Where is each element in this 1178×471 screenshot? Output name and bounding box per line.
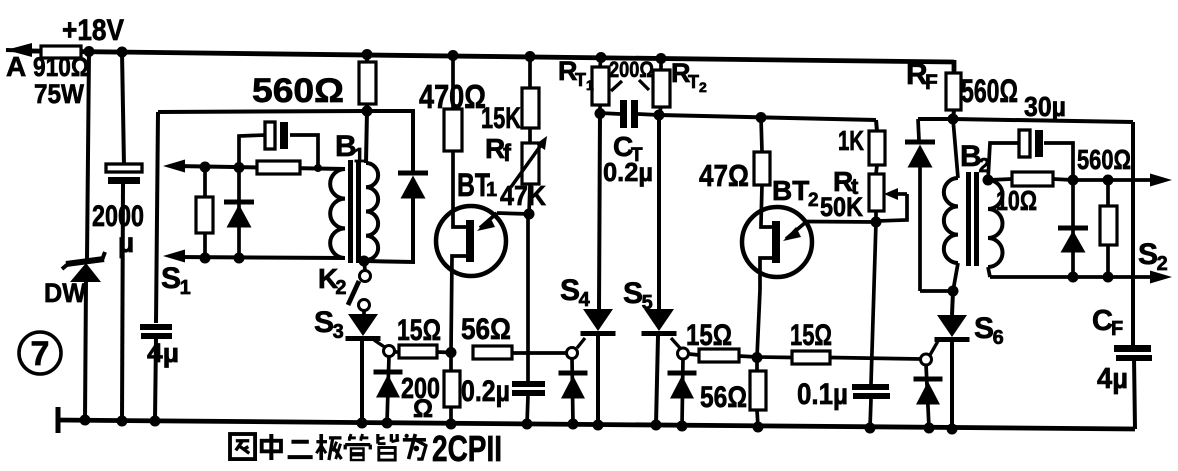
svg-text:6: 6	[993, 327, 1004, 349]
junction S2 bottom diode	[1068, 272, 1079, 283]
svg-text:4µ: 4µ	[1097, 363, 1128, 395]
junction bottom rail at 200Ω	[446, 419, 457, 430]
terminal circle S6 gate	[921, 354, 932, 365]
svg-text:1: 1	[486, 179, 497, 201]
resistor 10Ω body	[988, 172, 1073, 186]
label Rf	[485, 133, 512, 167]
junction B2 loop mid	[1068, 175, 1079, 186]
capacitor CF plates	[1114, 345, 1152, 361]
svg-text:2: 2	[1157, 253, 1168, 275]
wire RT1 to S4	[599, 113, 600, 309]
label S4	[560, 274, 591, 311]
svg-text:10Ω: 10Ω	[996, 185, 1037, 216]
resistor RF body	[946, 62, 961, 119]
wiper arrow Rt	[876, 188, 907, 221]
arrowhead terminal A (left)	[6, 43, 42, 57]
terminal bar bottom-left	[56, 407, 61, 433]
transformer B1 secondary winding	[330, 169, 345, 258]
label K2	[318, 263, 346, 299]
junction 47Ω branch	[756, 112, 767, 123]
thyristor S5	[642, 309, 677, 425]
wire 560Ω to rail	[365, 54, 369, 62]
svg-text:200Ω: 200Ω	[609, 57, 654, 82]
svg-text:T: T	[575, 70, 586, 90]
junction S2 bottom res	[1103, 272, 1114, 283]
wire B2 loop cap branch	[988, 143, 1073, 180]
resistor 15Ω (BT2-S6) body	[757, 351, 921, 364]
resistor 200Ω body	[444, 352, 460, 424]
thyristor S4	[581, 309, 616, 425]
wire top B2 row	[918, 119, 1133, 122]
svg-text:0.2µ: 0.2µ	[603, 157, 653, 187]
svg-text:470Ω: 470Ω	[419, 78, 486, 115]
svg-text:1: 1	[586, 77, 594, 93]
svg-text:f: f	[503, 140, 512, 167]
svg-text:3: 3	[333, 321, 344, 343]
diode B1 flyback	[398, 173, 428, 199]
label 1K	[838, 125, 864, 156]
label 15Ω (S6)	[790, 319, 832, 352]
junction 560Ω / box	[362, 106, 373, 117]
arrowhead S1 top	[163, 160, 185, 173]
label 560Ω (B2)	[1077, 144, 1131, 175]
svg-text:560Ω: 560Ω	[1077, 144, 1131, 175]
capacitor 0.1u plates	[852, 222, 890, 428]
label 0.1u	[797, 378, 848, 411]
wire S3 gate	[374, 340, 386, 348]
label 50K	[820, 192, 863, 222]
label B2	[960, 140, 990, 177]
arrowhead S1 bottom	[163, 250, 185, 263]
wire B1 box left vertical	[155, 112, 158, 420]
junction top rail at 470Ω branch	[448, 50, 459, 61]
svg-text:+18V: +18V	[62, 14, 124, 47]
junction bottom rail at 56Ω	[753, 422, 764, 433]
junction bottom rail at S5	[651, 420, 662, 431]
svg-text:1K: 1K	[838, 125, 864, 156]
circled 7 figure number	[19, 332, 61, 374]
svg-text:Ω: Ω	[413, 395, 433, 423]
label S6	[974, 312, 1004, 349]
label RF	[906, 58, 938, 94]
svg-text:910Ω: 910Ω	[33, 52, 89, 82]
resistor 910Ω 75W body	[41, 46, 81, 58]
pointer dash RT2	[639, 80, 649, 90]
label A	[6, 51, 26, 82]
transistor BT2 (UJT)	[742, 207, 876, 290]
svg-text:7: 7	[31, 335, 50, 373]
junction top rail at 2000u branch	[117, 47, 128, 58]
junction below RF	[948, 114, 959, 125]
thyristor S6	[935, 291, 970, 429]
svg-text:1: 1	[180, 277, 191, 299]
resistor 560Ω (B2) body	[1100, 180, 1117, 277]
junction bottom rail at 0.1u	[865, 423, 876, 434]
wire S5 gate	[671, 338, 680, 348]
resistor 47Ω (BT2) body	[754, 117, 770, 224]
arrowhead S2 top	[1150, 174, 1172, 187]
label Rt	[833, 166, 859, 199]
junction CT right	[654, 110, 665, 121]
svg-text:0.1µ: 0.1µ	[797, 378, 848, 411]
resistor 560Ω (B1) body	[359, 62, 376, 104]
wire CT node to 1K	[659, 115, 877, 131]
wire BT2-B1 lead	[757, 290, 760, 357]
terminal circle S3 gate	[384, 346, 395, 357]
svg-text:47K: 47K	[500, 180, 546, 211]
svg-text:S: S	[623, 277, 643, 310]
junction CT left	[595, 108, 606, 119]
junction bottom rail at D-S6	[924, 423, 935, 434]
junction top rail at RT1 branch	[596, 52, 607, 63]
label S5	[623, 277, 653, 314]
svg-text:1: 1	[354, 145, 365, 167]
svg-text:DW: DW	[44, 278, 86, 308]
arrowhead S2 bottom	[1150, 271, 1172, 284]
svg-text:5: 5	[642, 292, 653, 314]
junction bottom rail at 4u	[150, 416, 161, 427]
capacitor CT plates	[600, 100, 659, 128]
svg-text:15Ω: 15Ω	[686, 319, 732, 352]
diode below S4 gate	[559, 358, 588, 423]
resistor vertical (B1 loop)	[196, 167, 213, 258]
transformer B1 primary winding	[366, 163, 378, 260]
label 30u	[1024, 91, 1066, 122]
transformer B2 secondary winding	[988, 180, 1003, 267]
junction B1 primary bottom	[359, 256, 370, 267]
svg-text:560Ω: 560Ω	[252, 72, 344, 110]
junction bottom rail at D-S3	[382, 418, 393, 429]
label +18V	[62, 14, 124, 47]
resistor RT1 body	[592, 57, 609, 113]
svg-text:S: S	[974, 312, 994, 345]
svg-text:S: S	[560, 274, 580, 307]
label 10Ω	[996, 185, 1037, 216]
svg-text:2: 2	[335, 277, 346, 299]
capacitor 30u plates	[1019, 130, 1043, 157]
wire CF vertical	[1133, 122, 1135, 429]
junction S1 top row left	[200, 162, 211, 173]
junction top rail at 15K branch	[525, 51, 536, 62]
svg-text:47Ω: 47Ω	[699, 158, 749, 193]
wire cap branch	[239, 135, 318, 168]
svg-text:S: S	[161, 262, 181, 295]
junction BT2-B1 node	[752, 352, 763, 363]
junction B2 primary bottom	[948, 286, 959, 297]
resistor Rt 50K body	[869, 165, 884, 222]
capacitor B1 loop plates	[265, 122, 288, 149]
label u (2000u)	[118, 227, 134, 258]
wire B1 box top	[158, 111, 367, 112]
svg-text:2: 2	[808, 190, 819, 211]
resistor RT2 body	[653, 58, 670, 115]
label 560Ω (RF)	[961, 73, 1018, 109]
wire S2 bottom row	[988, 267, 1160, 277]
thyristor S3	[346, 310, 381, 423]
svg-text:S: S	[1138, 238, 1158, 271]
transformer B1 core bars	[348, 160, 361, 263]
junction BT1 emitter / Rf	[524, 209, 535, 220]
svg-text:15Ω: 15Ω	[397, 314, 441, 347]
resistor Rf 47K body	[522, 128, 539, 214]
svg-text:C: C	[1092, 305, 1113, 337]
junction Rt bottom node	[871, 217, 882, 228]
zener diode DW	[62, 252, 105, 282]
svg-text:2CPII: 2CPII	[432, 428, 502, 466]
label S2	[1138, 238, 1168, 275]
svg-text:BT: BT	[772, 175, 809, 206]
wire top +18V supply rail	[30, 51, 954, 74]
terminal circle S5 gate	[678, 348, 689, 359]
diode B1 loop	[224, 167, 254, 258]
diode B2 loop	[1058, 180, 1088, 277]
junction top rail at RT2 branch	[656, 53, 667, 64]
junction bottom rail at S3	[357, 418, 368, 429]
svg-text:µ: µ	[118, 227, 134, 258]
label 47K	[500, 180, 546, 211]
svg-text:4: 4	[579, 289, 591, 311]
wire bottom ground rail	[56, 420, 1135, 429]
label S1	[161, 262, 191, 299]
resistor 15Ω (S3) body	[394, 345, 451, 358]
label BT1	[457, 167, 497, 203]
wire diode branch B1	[366, 111, 413, 262]
label B1	[335, 130, 365, 167]
label 15Ω (S3)	[397, 314, 441, 347]
junction S1 bottom left	[200, 253, 211, 264]
svg-text:75W: 75W	[34, 79, 84, 109]
label 56Ω (S5)	[700, 381, 747, 414]
diode below S5 gate	[668, 358, 697, 426]
label 0.2u (bottom)	[461, 375, 510, 408]
switch K2	[348, 261, 371, 311]
arrow through Rf	[511, 136, 547, 187]
junction top rail at 560Ω branch	[362, 49, 373, 60]
wire S6 gate	[930, 341, 938, 355]
svg-text:F: F	[925, 71, 938, 94]
label 75W	[34, 79, 84, 109]
svg-text:4µ: 4µ	[147, 338, 179, 368]
label CT	[613, 131, 643, 166]
label Ω (200)	[413, 395, 433, 423]
junction B2 secondary top	[983, 175, 994, 186]
junction top rail at DW branch	[84, 46, 95, 57]
svg-text:15Ω: 15Ω	[790, 319, 832, 352]
svg-text:560Ω: 560Ω	[961, 73, 1018, 109]
label RT1	[558, 56, 594, 93]
svg-text:0.2µ: 0.2µ	[461, 375, 510, 408]
resistor 1K body	[869, 131, 885, 165]
junction bottom rail at 0.2u	[522, 419, 533, 430]
resistor 15K body	[522, 56, 539, 128]
label 560Ω (B1)	[252, 72, 344, 110]
svg-text:A: A	[6, 51, 26, 82]
label CF	[1092, 305, 1123, 340]
label 4u (CF)	[1097, 363, 1128, 395]
capacitor 2000u plates	[106, 164, 142, 184]
label 47Ω (BT2)	[699, 158, 749, 193]
resistor 470Ω body	[444, 55, 462, 225]
wire S4 gate	[577, 338, 585, 348]
svg-text:S: S	[314, 306, 334, 339]
label 200	[401, 373, 440, 405]
transformer B2 core bars	[966, 172, 979, 266]
wire S1 bottom row	[176, 257, 345, 258]
wire 2000u branch vertical	[122, 52, 124, 421]
wire B1 primary top	[366, 111, 367, 163]
svg-text:50K: 50K	[820, 192, 863, 222]
junction bottom rail at S6	[947, 424, 958, 435]
resistor horizontal (B1 damp) body	[257, 161, 300, 174]
label 910Ω	[33, 52, 89, 82]
wire S2 top row	[1073, 178, 1160, 182]
resistor 15Ω (S5-BT2) body	[689, 349, 757, 362]
resistor 56Ω (BT2) body	[750, 357, 766, 427]
label DW	[44, 278, 86, 308]
caption: diodes in figure are all 2CP11 (Chinese)	[230, 434, 426, 460]
junction cap branch right	[314, 164, 322, 172]
label 4u (left)	[147, 338, 179, 368]
caption 2CPII	[432, 428, 502, 469]
svg-text:30µ: 30µ	[1024, 91, 1066, 122]
label 2000	[92, 200, 144, 233]
junction bottom rail at DW	[80, 415, 91, 426]
wire DW branch vertical	[85, 51, 89, 420]
wire 560Ω to box	[365, 104, 369, 112]
junction 15Ω/200Ω node	[446, 347, 457, 358]
junction S1 top row right	[234, 162, 245, 173]
junction bottom rail at S4	[593, 420, 604, 431]
transformer B2 primary winding	[944, 119, 958, 291]
label S3	[314, 306, 344, 343]
junction bottom rail at D-S4	[568, 419, 579, 430]
label 200Ω (RT)	[609, 57, 654, 82]
label 470Ω	[419, 78, 486, 115]
pointer dash RT1	[611, 81, 622, 91]
label 56Ω (S3-S4)	[461, 313, 511, 346]
label 15Ω (S5)	[686, 319, 732, 352]
label RT2	[671, 58, 707, 95]
svg-text:15K: 15K	[481, 102, 521, 135]
terminal circle S4 gate	[567, 348, 578, 359]
diode below S6 gate	[914, 364, 943, 428]
capacitor 4u plates (left)	[140, 324, 172, 339]
svg-text:F: F	[1111, 318, 1123, 340]
label 15K	[481, 102, 521, 135]
label BT2	[772, 175, 819, 211]
wire S1 top row	[176, 166, 345, 169]
capacitor 0.2u (bottom) plates	[512, 214, 545, 424]
svg-text:T: T	[688, 72, 699, 92]
junction 560Ω top	[1103, 175, 1114, 186]
junction bottom rail at D-S5	[677, 421, 688, 432]
transistor BT1 (UJT)	[436, 206, 529, 352]
wire RT2 to S5	[657, 116, 661, 309]
label 0.2u (CT)	[603, 157, 653, 187]
resistor 56Ω (S3-S4) body	[473, 346, 567, 359]
svg-text:56Ω: 56Ω	[700, 381, 747, 414]
junction S1 bottom right	[234, 253, 245, 264]
diode B2 flyback	[905, 119, 953, 291]
svg-text:2: 2	[699, 79, 707, 95]
junction bottom rail at 2000u	[117, 416, 128, 427]
diode below S3 gate	[374, 356, 403, 423]
svg-text:56Ω: 56Ω	[461, 313, 511, 346]
